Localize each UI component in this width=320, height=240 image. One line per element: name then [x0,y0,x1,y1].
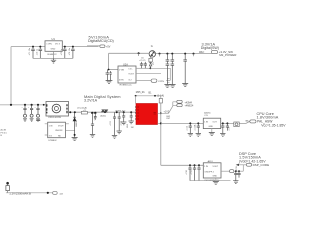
wire MCU pin out y73.3 [136,72,161,74]
svg-text:+5V: +5V [106,46,111,49]
svg-text:3 EN: 3 EN [119,80,124,82]
svg-text:+C1 10u: +C1 10u [29,48,31,56]
svg-text:GND: GND [51,49,56,51]
svg-text:+C22: +C22 [110,121,112,126]
svg-text:AL 4N: AL 4N [1,129,7,132]
capacitor C5 [106,70,112,81]
node J4 [72,46,74,48]
component X1 [234,122,239,127]
svg-text:ON/OFF: ON/OFF [55,130,63,132]
wire rail A y104.8 [0,104,46,106]
ground bar GND5 [36,119,40,121]
node J10 [171,53,173,55]
ground GND6 [72,138,78,141]
ground GND3 [164,85,175,88]
wire vertical x160.8 [160,103,162,165]
svg-text:VOUT: VOUT [58,125,64,127]
svg-text:1 IN: 1 IN [49,125,53,127]
node J35 [189,164,191,166]
connector P2 [53,192,58,195]
node J16 [37,104,39,106]
wire MCU vin stub [109,69,118,71]
node J12 [193,53,195,55]
node J25 [123,111,125,113]
wire above module y95.8 [135,95,161,97]
svg-text:U2A: U2A [123,63,128,66]
node J6 [108,69,110,71]
wire input rail y46.6 [11,46,45,48]
connector P1 circle [149,51,155,57]
capacitor C17 [117,112,122,134]
svg-text:+C3 1u: +C3 1u [61,49,63,56]
node J14 [24,104,26,106]
svg-text:PG 0.5: PG 0.5 [1,132,8,134]
regulator U6 [203,163,221,178]
ground GND4 [182,84,188,87]
diode D2 [73,112,76,137]
svg-text:+C1: +C1 [228,127,230,131]
svg-text:+C15: +C15 [186,126,188,131]
svg-text:RG8MC2: RG8MC2 [48,54,58,56]
svg-text:DSP_CORE: DSP_CORE [253,163,270,167]
node J31 [189,122,191,124]
capacitor C14 [90,113,95,137]
node J33 [222,122,224,124]
node J9 [166,53,168,55]
svg-text:LN2: LN2 [127,123,129,128]
wire MCU pin out y68.3 [136,67,150,69]
wire U3 right pins [65,124,74,131]
svg-text:Vcc=1.35-1.85V: Vcc=1.35-1.85V [261,123,286,127]
wire U5 gnd [211,129,213,133]
svg-text:A4051: A4051 [204,112,211,115]
svg-text:DigitalMCU(CD): DigitalMCU(CD) [88,39,114,43]
regulator U1 [45,41,62,52]
regulator U5 [203,118,220,128]
node J7 [150,67,152,69]
capacitor C20 [188,123,193,136]
capacitor C18 [121,112,126,125]
node J38 [235,170,237,172]
node J26 [130,111,132,113]
svg-text:+1V2: +1V2 [164,110,170,113]
node J5 [138,52,140,54]
svg-text:1.2V/2300mAH.B: 1.2V/2300mAH.B [9,192,31,196]
svg-text:VO 3: VO 3 [55,44,61,46]
capacitor C23 [226,123,229,130]
svg-text:G: G [151,44,153,48]
wire left vertical bus x11 [10,47,12,105]
node J30 [160,112,162,114]
node J24 [116,111,118,113]
wire LED chain to right [150,68,170,80]
svg-text:+C2 1u: +C2 1u [37,49,39,56]
wire CPU out rail [221,121,250,123]
svg-text:WE=: WE= [199,51,205,54]
svg-text:M05_Rx: M05_Rx [136,91,146,94]
node J18 [69,111,71,113]
node J3 [64,46,66,48]
wire DSP bottom bus [190,180,231,182]
svg-text:C2L: C2L [204,115,209,117]
svg-text:ON/OFF 4: ON/OFF 4 [205,172,215,174]
svg-text:B: B [1,135,3,137]
wire U6 gnd [215,178,217,181]
node J20 [74,134,76,136]
svg-text:(Vdd=1.42-1.65V: (Vdd=1.42-1.65V [239,159,266,163]
capacitor C4 [71,47,75,59]
wire U3 left pins [45,124,48,135]
ferrite bead FB1 [160,96,162,99]
capacitor C7 pair [140,62,147,68]
svg-text:U1: U1 [52,37,56,41]
svg-text:+: + [28,107,29,109]
op-amp U2A MCU regulator [118,66,136,83]
net connector DSP pill [236,164,239,166]
svg-text:1 VIN: 1 VIN [46,44,52,46]
svg-text:+C30: +C30 [186,170,188,175]
svg-text:+4MEJ4: +4MEJ4 [185,104,195,107]
battery BT1 [6,182,9,185]
ground GND8 [213,181,219,184]
capacitor C12 electrolytic [30,105,34,121]
wire 3.3V rail y53.6 [156,53,212,55]
ground GND1 [51,58,56,63]
capacitor C13 electrolytic [36,105,40,121]
node J21 big [91,112,93,114]
capacitor C9 [171,54,175,85]
node J37 [198,164,200,166]
svg-text:1M: 1M [131,127,134,129]
svg-text:+C33: +C33 [236,166,238,171]
node J23 [104,111,106,113]
svg-text:+C5 C5: +C5 C5 [139,60,145,62]
wire output rail y46.6 [62,46,98,48]
diode D3 series on rail [102,110,108,112]
ground GND2 [106,81,113,84]
wire MCU pin out y80.4 [136,79,151,81]
node J39 [238,170,240,172]
module U4 red [136,104,158,125]
capacitor C22 [220,123,225,136]
svg-text:B1: B1 [149,91,153,94]
capacitor C21 [196,123,201,136]
node J17 [43,104,45,106]
svg-text:MBR05: MBR05 [76,120,78,126]
svg-text:3 G: 3 G [49,135,53,137]
capacitor C19 [129,112,134,124]
node J34 [226,122,228,124]
node J11 [184,53,186,55]
node J8 [159,53,161,55]
capacitor C3 [63,47,67,59]
node J27 [135,95,137,97]
node J32 [197,122,199,124]
capacitor C25 [193,165,196,180]
svg-text:VOUT: VOUT [128,74,134,76]
node J22 big [94,112,96,114]
svg-text:GND: GND [209,126,214,128]
svg-text:1 VIN: 1 VIN [119,69,125,71]
svg-text:3.2V/1A: 3.2V/1A [84,98,98,102]
capacitor C1 [31,47,35,59]
wire battery rail y192.8 [6,192,53,194]
node J28 [154,95,156,97]
capacitor C26 [197,165,200,180]
transformer T1 module [46,102,69,117]
wire rail B y112.2 [69,111,136,113]
svg-text:C2PN: C2PN [158,81,164,83]
node J19 [74,111,76,113]
capacitor C10 [183,54,187,84]
node J13 [10,104,12,106]
node J40 [47,192,49,194]
svg-text:Digital(SW): Digital(SW) [201,46,219,50]
node J15 [31,104,33,106]
svg-text:GND: GND [213,176,218,178]
capacitor C16 [112,112,117,138]
svg-text:M2_POWER: M2_POWER [219,53,237,57]
capacitor C8 [166,54,170,85]
svg-text:R07: R07 [167,118,172,120]
svg-text:+C15A: +C15A [193,124,196,131]
wire module right pin [158,122,161,124]
svg-text:4-B: 4-B [60,194,64,196]
node J29 [160,122,162,124]
resistor R4 pill [230,170,234,173]
fuse F1 [177,100,182,103]
capacitor C28 [237,171,240,177]
fuse F2 [177,104,182,107]
wire to fuse pills [158,102,177,114]
svg-text:VOUT: VOUT [213,166,219,168]
svg-text:(A10): (A10) [100,115,106,118]
svg-text:RO8MCC2a: RO8MCC2a [120,84,133,86]
LED D1 [149,57,154,68]
node J36 [194,164,196,166]
svg-text:STM802: STM802 [48,140,57,142]
svg-text:C2R05 4R2W: C2R05 4R2W [48,117,61,119]
wire DSP out [221,170,230,172]
wire regulator gnd pin [53,51,55,58]
node J2 [39,46,41,48]
wire DSP feed corner [161,164,204,166]
wire MCU feed corner [109,52,149,54]
capacitor C2 [39,47,43,59]
capacitor C11 electrolytic [23,105,27,121]
wire CPU rail y123.4 [161,122,204,124]
capacitor C27 [233,171,238,183]
svg-text:1 IN: 1 IN [204,122,208,124]
svg-text:A051: A051 [208,160,214,163]
wire cap bottom bus [33,57,73,59]
resistor R2 pill [151,79,157,82]
node J1 [32,46,34,48]
net connector 5V pill [100,45,105,48]
svg-text:+C31: +C31 [191,170,193,175]
svg-text:+C4 10u: +C4 10u [69,48,71,56]
svg-text:+: + [35,107,36,109]
wire DSP up to net [242,165,244,171]
resistor R1 [149,58,152,62]
capacitor C15 small [94,113,97,120]
svg-text:+: + [22,107,23,109]
svg-text:1 IN: 1 IN [204,166,208,168]
IC U3 [48,122,66,138]
ground GND7 [209,133,215,136]
capacitor C24 [188,165,191,180]
wire module top pin [135,96,137,104]
